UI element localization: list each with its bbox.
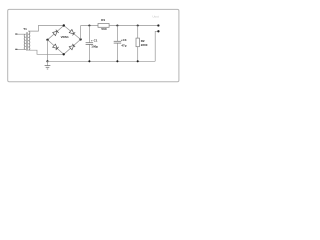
capacitor C3 wires bbox=[116, 26, 118, 42]
bridge node dot bottom bbox=[63, 53, 65, 55]
junction dot ground left bbox=[46, 60, 48, 62]
diode D1 (L to T) bbox=[53, 31, 58, 35]
svg-text:+ C1: + C1 bbox=[91, 39, 98, 43]
diode D4 (B to R) bbox=[69, 45, 74, 49]
svg-text:T1: T1 bbox=[23, 27, 27, 31]
wire bridge left corner down to ground rail bbox=[47, 40, 49, 62]
+ rail right part bbox=[109, 25, 158, 27]
ground rail riser to output bbox=[155, 31, 158, 61]
wire bridge right corner up to + rail bbox=[80, 26, 82, 40]
bridge edge wire B-R bbox=[64, 39, 81, 54]
svg-text:47µ: 47µ bbox=[121, 43, 126, 47]
bridge node dot right bbox=[79, 38, 81, 40]
svg-text:100µ: 100µ bbox=[91, 45, 98, 49]
wire secondary bottom to bridge bottom corner bbox=[28, 50, 63, 54]
svg-text:Uout: Uout bbox=[152, 14, 159, 18]
transformer core bbox=[26, 32, 28, 50]
resistor R2 box bbox=[136, 38, 139, 47]
resistor R2 wires bbox=[137, 26, 139, 39]
diode D3 (L to B) bbox=[53, 44, 58, 48]
capacitor C1 wires bbox=[88, 26, 90, 43]
capacitor C3 plates bbox=[114, 40, 122, 42]
bridge edge wire L-B bbox=[48, 40, 64, 55]
output terminal minus bbox=[157, 30, 159, 32]
+ rail left part bbox=[81, 25, 98, 27]
diode D2 (T to R) bbox=[69, 29, 74, 33]
transformer primary winding bbox=[24, 34, 26, 49]
junction dot C3 bottom bbox=[116, 60, 118, 62]
svg-text:R1: R1 bbox=[101, 18, 105, 22]
capacitor C1 plates bbox=[86, 42, 94, 44]
ground rail bbox=[48, 60, 156, 62]
bridge edge wire L-T bbox=[48, 26, 64, 40]
svg-text:VDS1: VDS1 bbox=[61, 35, 69, 39]
transformer secondary winding bbox=[28, 31, 30, 50]
resistor R1 box bbox=[98, 24, 109, 28]
junction dot R2 top bbox=[137, 24, 139, 26]
bridge node dot left bbox=[46, 39, 48, 41]
input stub top bbox=[16, 33, 26, 35]
svg-text:560: 560 bbox=[101, 27, 106, 31]
border frame bbox=[8, 9, 179, 81]
junction dot C3 top bbox=[116, 24, 118, 26]
junction dot R2 bottom bbox=[137, 60, 139, 62]
svg-text:+C3: +C3 bbox=[121, 38, 127, 42]
junction dot C1 top bbox=[88, 24, 90, 26]
output terminal plus bbox=[157, 24, 159, 26]
svg-text:2200: 2200 bbox=[141, 43, 148, 47]
ground symbol bbox=[47, 61, 49, 65]
junction dot C1 bottom bbox=[88, 60, 90, 62]
input stub bottom bbox=[16, 49, 26, 51]
wire secondary top to bridge top corner bbox=[28, 26, 64, 32]
bridge edge wire T-R bbox=[64, 26, 81, 40]
bridge node dot top bbox=[63, 24, 65, 26]
